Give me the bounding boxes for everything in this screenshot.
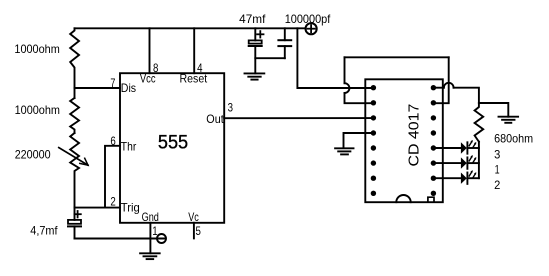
resistor R3 680ohm	[475, 103, 484, 142]
ground (C2)	[245, 72, 265, 74]
wire 4017 pin L4 to ground	[344, 133, 374, 148]
svg-text:2: 2	[494, 179, 500, 192]
svg-text:Reset: Reset	[180, 73, 208, 86]
ground (4017 reset pin)	[335, 147, 353, 149]
svg-text:1: 1	[495, 164, 500, 177]
resistor R1 1000ohm (top left, vertical)	[70, 28, 79, 88]
wire LED cathode bus	[478, 142, 480, 179]
U2 pin1 mark	[428, 197, 434, 201]
wire pin 5 Vc stub	[193, 223, 195, 239]
wire pin 8 Vcc to rail	[149, 28, 151, 73]
svg-text:Vcc: Vcc	[140, 73, 156, 86]
plus supply terminal	[306, 23, 317, 34]
ground (555 pin1)	[140, 252, 160, 254]
D1 light arrows	[469, 142, 472, 146]
C2 plus sign	[257, 33, 263, 35]
C1 plus sign	[74, 213, 80, 215]
ground (680ohm top)	[499, 116, 519, 118]
op-amp/timer U1 555 package	[120, 73, 224, 223]
svg-text:CD 4017: CD 4017	[405, 104, 422, 167]
wire C1 bottom to ground node	[75, 238, 151, 240]
capacitor C2 47mf (polarized)	[254, 28, 256, 40]
svg-text:Trig: Trig	[121, 201, 140, 214]
LED D3 (pin R7)	[433, 177, 461, 179]
svg-text:3: 3	[494, 148, 500, 161]
potentiometer wiper arrow	[59, 148, 88, 166]
LED D2 (pin R6)	[433, 162, 461, 164]
wire loop right side down to pin R2	[433, 57, 448, 103]
wire rail down to 4017 pin L1	[297, 28, 373, 88]
wire Thr (pin6) branch	[105, 146, 120, 208]
wire C3 bottom to C2 bottom	[255, 57, 284, 59]
svg-text:680ohm: 680ohm	[494, 133, 533, 146]
wire feedback loop top (over 4017) with hop over L1 wire	[344, 57, 346, 83]
svg-text:Thr: Thr	[121, 141, 137, 154]
svg-text:1000ohm: 1000ohm	[14, 43, 59, 56]
svg-text:Dis: Dis	[121, 82, 136, 95]
wire resistor node to ground stub	[479, 103, 508, 117]
svg-text:47mf: 47mf	[239, 13, 266, 26]
capacitor C1 4,7mf (polarized)	[74, 208, 76, 220]
D2 light arrows	[469, 157, 472, 161]
svg-text:5: 5	[196, 225, 202, 238]
wire Trig (pin2) to left rail	[75, 207, 121, 209]
U2 right pin dots	[431, 85, 436, 196]
IC U2 CD4017 package	[365, 79, 443, 202]
wire 555 Out (pin3) to 4017 clock pin L3	[224, 117, 373, 119]
svg-text:2: 2	[110, 196, 115, 209]
svg-text:Out: Out	[206, 113, 224, 126]
svg-text:555: 555	[158, 132, 188, 154]
svg-text:3: 3	[228, 102, 233, 115]
svg-text:4,7mf: 4,7mf	[30, 224, 58, 237]
resistor R2 1000ohm (second, vertical)	[70, 98, 79, 133]
minus supply terminal at pin 1	[150, 238, 165, 240]
node junction R1/R2/Dis	[74, 88, 76, 98]
U2 notch	[396, 195, 410, 202]
svg-text:1000ohm: 1000ohm	[15, 104, 60, 117]
U2 left pin dots	[371, 85, 376, 196]
svg-text:6: 6	[110, 135, 115, 148]
wire pin R1 to 680ohm node with hop over loop wire	[433, 87, 443, 89]
capacitor C3 100000pf	[284, 28, 286, 40]
wire Dis (pin7) to divider junction	[75, 87, 121, 89]
svg-text:220000: 220000	[15, 149, 51, 162]
svg-text:7: 7	[110, 77, 115, 90]
D3 light arrows	[469, 172, 472, 176]
wire pin 1 Gnd down	[149, 223, 151, 253]
potentiometer VR1 220000 (zigzag)	[70, 133, 79, 208]
wire pin 4 Reset to rail	[193, 28, 195, 73]
LED D1 (pin R5)	[433, 147, 461, 149]
wire top supply rail	[75, 27, 306, 29]
